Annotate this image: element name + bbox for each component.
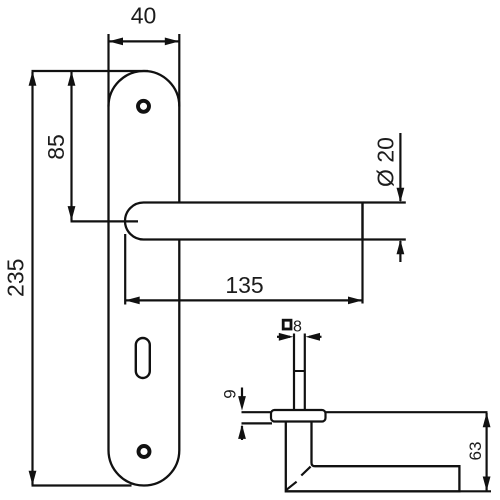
screw hole top	[138, 101, 149, 112]
dimension diameter 20	[364, 201, 406, 203]
extension line plate top	[32, 70, 149, 72]
dimension 9	[241, 388, 243, 400]
handle right edge extension line	[361, 203, 363, 304]
svg-text:63: 63	[466, 442, 485, 461]
extension line handle centerline	[71, 220, 139, 222]
extension line grip bottom	[459, 490, 491, 492]
side view: rose collar	[271, 410, 326, 422]
svg-text:85: 85	[43, 134, 69, 160]
square symbol	[283, 320, 291, 329]
side view: lever L-shape	[286, 422, 460, 492]
dimension 85	[70, 72, 72, 221]
svg-text:40: 40	[131, 3, 157, 29]
backplate (front view)	[109, 71, 180, 486]
dimension 135	[124, 234, 126, 305]
keyhole slot	[136, 338, 150, 378]
dimension 8 square spindle	[277, 336, 290, 338]
svg-text:8: 8	[293, 319, 302, 336]
svg-text:235: 235	[2, 259, 28, 297]
extension line plate bottom	[32, 484, 132, 486]
svg-text:Ø 20: Ø 20	[373, 137, 399, 187]
screw hole bottom	[139, 446, 150, 457]
dimension 40	[107, 34, 109, 107]
svg-text:9: 9	[220, 389, 239, 398]
side view: backplate edge	[242, 411, 272, 413]
svg-text:135: 135	[225, 272, 263, 298]
dimension 63	[486, 413, 488, 491]
side view: square spindle	[293, 334, 295, 411]
bend line outer	[286, 482, 296, 490]
dimension 235	[31, 72, 33, 485]
lever handle bar (front view)	[125, 203, 363, 240]
bend line inner	[301, 467, 310, 476]
